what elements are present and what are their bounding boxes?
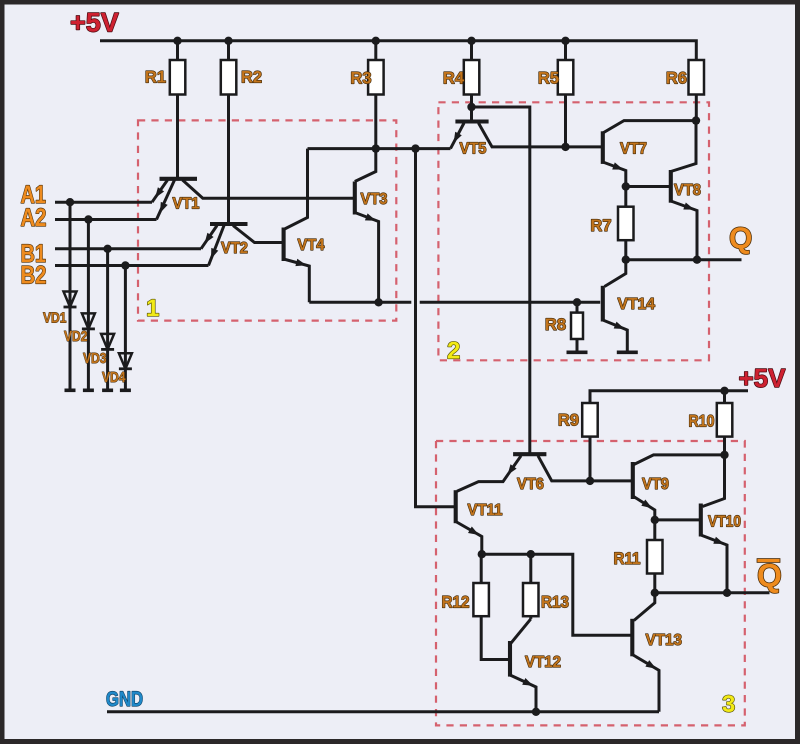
+5V rail [100, 41, 696, 60]
svg-text:R2: R2 [241, 69, 262, 87]
wire R8 top [576, 302, 579, 312]
transistor VT8 [669, 170, 673, 203]
label VT5 [460, 141, 487, 158]
wire VT6 emitter [457, 456, 521, 492]
svg-text:R12: R12 [442, 594, 470, 612]
wire R6 bottom [695, 95, 698, 121]
junction VT3e-bus [374, 298, 382, 306]
junction R8-bus [573, 298, 581, 306]
label VD4 [102, 369, 126, 386]
wire VT5 collector [479, 123, 566, 147]
junction Qbar-R11 [651, 589, 659, 597]
resistor R13 [523, 583, 539, 616]
svg-text:VT3: VT3 [361, 191, 388, 208]
label 1 [146, 295, 159, 322]
label Qbar [757, 558, 782, 594]
junction bus-R13 [527, 550, 535, 558]
transistor VT5 [455, 119, 488, 123]
ground VD2 [83, 388, 94, 392]
svg-text:R11: R11 [614, 550, 641, 568]
wire VT9 emitter [633, 496, 655, 520]
wire R5 top [564, 41, 567, 60]
resistor R4 [464, 60, 480, 95]
wire VT7 collector [603, 121, 696, 133]
label VT10 [708, 514, 741, 531]
svg-text:VT13: VT13 [646, 632, 683, 649]
svg-text:3: 3 [722, 691, 735, 718]
dashed box 2 [438, 102, 709, 360]
junction R4-VT5 [467, 103, 475, 111]
wire VT10 base [655, 518, 701, 521]
svg-text:VT5: VT5 [460, 141, 487, 158]
ground R8 [567, 350, 588, 354]
label 2 [447, 338, 460, 365]
wire R13 bottom [529, 616, 532, 619]
svg-text:R8: R8 [545, 316, 566, 334]
wire VT10 emitter [701, 535, 727, 593]
label R4 [443, 70, 465, 88]
svg-text:VD1: VD1 [43, 310, 67, 327]
junction B1-VD3 [103, 245, 111, 253]
wire input A2 [55, 218, 157, 221]
dashed box 1 [138, 120, 396, 320]
junction bus-R12 [478, 550, 486, 558]
wire VT3 emitter [355, 213, 379, 303]
wire GND [107, 710, 659, 713]
wire VT5 base node [472, 107, 530, 454]
resistor R8 [571, 313, 583, 339]
label R8 [545, 316, 566, 334]
label VT8 [674, 182, 701, 199]
wire VT4 collector [284, 149, 308, 230]
label VT9 [642, 476, 669, 493]
label Q [729, 222, 752, 255]
wire VD4 [124, 266, 127, 391]
wire VT8 collector [671, 121, 696, 172]
wire R10 bottom [723, 391, 726, 455]
svg-text:R7: R7 [590, 217, 611, 235]
label VT2 [221, 240, 248, 257]
label 3 [722, 691, 735, 718]
svg-text:VT2: VT2 [221, 240, 248, 257]
wire input A1 [55, 201, 152, 204]
label VT4 [298, 237, 325, 254]
svg-text:R4: R4 [443, 70, 465, 88]
transistor VT10 [699, 504, 703, 537]
label VD1 [43, 310, 67, 327]
resistor R6 [689, 60, 705, 95]
svg-text:VT10: VT10 [708, 514, 741, 531]
junction GND-VT12 [532, 708, 540, 716]
label GND [106, 688, 143, 711]
svg-text:VT9: VT9 [642, 476, 669, 493]
wire VT13 collector [634, 593, 655, 621]
junction Qbar-VT10 [723, 589, 731, 597]
resistor R11 [647, 540, 663, 574]
label R3 [350, 70, 371, 88]
label VT12 [525, 654, 561, 671]
wire VT12 emitter [510, 675, 536, 712]
wire VT8 emitter [671, 201, 697, 260]
junction VT7e-node [622, 182, 630, 190]
ground VT14 [617, 350, 638, 354]
resistor R1 [170, 60, 186, 95]
resistor R9 [582, 403, 598, 437]
wire R11 bottom [653, 574, 656, 593]
wire VT7 emitter [603, 162, 626, 187]
diode VD2 [82, 313, 95, 329]
label R9 [558, 412, 579, 430]
resistor R5 [558, 60, 574, 95]
label A2 [21, 204, 47, 232]
transistor VT3 [353, 182, 357, 215]
wire R12 top [480, 554, 483, 583]
wire R13 top [529, 554, 532, 583]
junction B2-VD4 [121, 261, 129, 269]
wire R9 bottom [589, 437, 592, 481]
wire R5 bottom [564, 95, 567, 147]
wire VT6 collector [538, 456, 633, 481]
label R12 [442, 594, 470, 612]
wire R11 top [653, 520, 656, 540]
label VT11 [468, 502, 503, 519]
label VT13 [646, 632, 683, 649]
svg-text:VT12: VT12 [525, 654, 561, 671]
transistor VT11 [454, 490, 458, 523]
wire VD3 [106, 249, 109, 390]
junction rail-R2 [224, 37, 232, 45]
wire VT14 emitter [603, 320, 628, 351]
svg-text:R13: R13 [541, 594, 569, 612]
transistor VT1 [152, 179, 197, 220]
svg-text:VT7: VT7 [620, 141, 647, 158]
wire VT5 emitter [451, 123, 465, 149]
wire VT13 emitter [632, 655, 659, 712]
label +5V bottom [739, 363, 787, 393]
wire VT14 collector [605, 260, 626, 287]
svg-text:1: 1 [146, 295, 159, 322]
svg-text:VT4: VT4 [298, 237, 325, 254]
label VD2 [64, 328, 88, 345]
svg-text:VT6: VT6 [517, 476, 544, 493]
svg-text:R3: R3 [350, 70, 371, 88]
label B1 [21, 240, 47, 268]
junction R5-nodeB [561, 143, 569, 151]
svg-text:VD2: VD2 [64, 328, 88, 345]
wire node A [308, 147, 451, 150]
wire VT10 collector [703, 455, 725, 507]
wire VT2 collector [233, 226, 284, 243]
svg-text:A2: A2 [21, 204, 47, 232]
resistor R12 [473, 583, 489, 616]
wire emitter bus [309, 301, 600, 304]
svg-text:+5V: +5V [739, 363, 787, 393]
label +5V top [70, 8, 119, 38]
svg-text:VT14: VT14 [618, 296, 656, 313]
wire output Qbar [655, 591, 770, 594]
wire R1 bottom [176, 95, 179, 178]
wire VD2 [87, 220, 90, 391]
wire R1 top [176, 41, 179, 60]
label VT1 [173, 196, 200, 213]
junction R6-VT7-VT8 [692, 116, 700, 124]
svg-text:+5V: +5V [70, 8, 119, 38]
junction R9-VT6 [586, 477, 594, 485]
junction rail2-R10 [720, 387, 728, 395]
wire R3 bottom [355, 95, 376, 182]
diode VD3 [101, 334, 114, 350]
svg-text:R5: R5 [538, 70, 559, 88]
svg-text:GND: GND [106, 688, 143, 711]
dashed box 3 [436, 441, 745, 725]
svg-text:R10: R10 [689, 413, 715, 431]
resistor R7 [618, 207, 634, 241]
wire VT8 base [626, 185, 671, 188]
wire VT9 collector [633, 455, 725, 465]
diode VD1 [64, 292, 77, 308]
resistor R3 [368, 60, 384, 95]
transistor VT6 [513, 452, 546, 456]
svg-text:B2: B2 [21, 262, 47, 290]
svg-text:VT11: VT11 [468, 502, 503, 519]
wire VT7 base [566, 145, 603, 148]
transistor VT14 [601, 286, 605, 322]
wire VT1 collector [183, 180, 355, 198]
junction R10-VT9-VT10 [720, 451, 728, 459]
+5V rail 2 [590, 391, 748, 403]
wire R7 bottom [624, 240, 627, 260]
label R7 [590, 217, 611, 235]
wire R8 bottom [576, 339, 579, 351]
resistor R2 [221, 60, 237, 95]
svg-text:VT1: VT1 [173, 196, 200, 213]
wire R2 bottom [227, 95, 230, 223]
label B2 [21, 262, 47, 290]
wire R2 top [227, 41, 230, 60]
wire input B2 [55, 264, 209, 267]
wire nodeA to VT11 [416, 149, 456, 507]
svg-text:R9: R9 [558, 412, 579, 430]
wire base bus [482, 554, 633, 635]
junction nodeA-down [411, 144, 419, 152]
svg-text:Q: Q [757, 558, 782, 594]
junction A1-VD1 [66, 198, 74, 206]
label VT3 [361, 191, 388, 208]
label VT7 [620, 141, 647, 158]
wire R12 bottom [481, 616, 510, 659]
wire R3 top [374, 41, 377, 60]
svg-text:2: 2 [447, 338, 460, 365]
wire VT4 emitter [284, 259, 310, 303]
svg-text:R6: R6 [666, 70, 687, 88]
junction A2-VD2 [84, 215, 92, 223]
wire input B1 [55, 247, 201, 250]
label VT14 [618, 296, 656, 313]
transistor VT13 [630, 619, 634, 657]
wire output Q [626, 258, 742, 261]
label R2 [241, 69, 262, 87]
label VT6 [517, 476, 544, 493]
label R1 [145, 69, 166, 87]
ground VD4 [120, 388, 131, 392]
svg-text:Q: Q [729, 222, 752, 255]
wire VD1 [69, 202, 72, 390]
transistor VT2 [201, 224, 248, 266]
svg-text:R1: R1 [145, 69, 166, 87]
svg-text:VD3: VD3 [83, 350, 107, 367]
wire R4 top [470, 41, 473, 60]
junction rail-R3 [372, 37, 380, 45]
wire R4 bottom [470, 95, 473, 122]
transistor VT4 [282, 228, 286, 262]
junction Q-R7 [622, 256, 630, 264]
junction R11-node [651, 516, 659, 524]
transistor VT9 [631, 462, 635, 499]
resistor R10 [717, 403, 733, 437]
junction rail-R5 [561, 37, 569, 45]
junction Q-VT8 [693, 256, 701, 264]
transistor VT12 [508, 641, 512, 677]
wire VT11 emitter [456, 522, 482, 555]
junction rail-R1 [173, 37, 181, 45]
wire R7 top [624, 187, 627, 207]
label VD3 [83, 350, 107, 367]
ground VD1 [65, 388, 76, 392]
ground VD3 [102, 388, 113, 392]
diode VD4 [119, 353, 132, 369]
wire VT12 collector [510, 619, 531, 644]
label A1 [21, 181, 47, 209]
svg-text:VD4: VD4 [102, 369, 126, 386]
svg-text:VT8: VT8 [674, 182, 701, 199]
label R5 [538, 70, 559, 88]
label R13 [541, 594, 569, 612]
label R6 [666, 70, 687, 88]
label R10 [689, 413, 715, 431]
junction R3-nodeA [372, 144, 380, 152]
junction rail-R4 [467, 37, 475, 45]
transistor VT7 [601, 131, 605, 164]
label R11 [614, 550, 641, 568]
